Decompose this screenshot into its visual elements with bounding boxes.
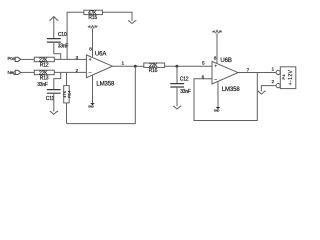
ground arrow near connector [258, 91, 266, 94]
power V+ symbol above U6B pin8 [212, 30, 222, 33]
connector pad Pos [8, 56, 21, 62]
resistor R14 vertical [63, 86, 71, 103]
resistor R16 22K [144, 63, 165, 74]
svg-text:33nF: 33nF [37, 82, 48, 88]
svg-text:1: 1 [272, 67, 275, 72]
junction dot C12 [175, 65, 178, 68]
svg-text:U6B: U6B [220, 58, 231, 64]
feedback wire A down and left [67, 66, 136, 123]
wire connector pin2 to ground [261, 86, 276, 92]
power V+ arrow above C10 [49, 17, 58, 21]
svg-text:R13: R13 [40, 75, 49, 81]
resistor R15 47K [84, 10, 103, 21]
svg-text:C12: C12 [180, 77, 189, 83]
wire V+ to C10 [53, 18, 55, 39]
wire U6A output [112, 65, 143, 67]
ground arrow under C11 [50, 112, 58, 115]
power V+ symbol above U6A pin8 [88, 26, 98, 29]
svg-text:+: + [214, 63, 217, 68]
svg-text:R16: R16 [149, 68, 158, 74]
svg-text:P4: P4 [281, 74, 286, 80]
svg-text:2: 2 [272, 79, 275, 84]
svg-text:+: + [89, 57, 92, 62]
svg-text:9V: 9V [219, 30, 222, 33]
wire C12 bottom to ground [176, 87, 178, 106]
svg-text:33nF: 33nF [180, 89, 191, 95]
wire R12 to U6A pin3 [54, 58, 86, 60]
ground arrow top right of R15 [128, 21, 136, 24]
op-amp U6A LM358 [86, 51, 115, 87]
capacitor C10 33nF [47, 32, 69, 50]
wire U6B pin6 feedback route [194, 73, 257, 121]
svg-text:R14: R14 [67, 91, 71, 98]
wire R13 to U6A pin2 [54, 71, 86, 73]
wire R14 bottom [66, 103, 68, 124]
svg-text:R15: R15 [88, 15, 97, 21]
svg-text:–: – [214, 76, 217, 81]
wire V+ to U6B pin8 [216, 33, 218, 64]
svg-text:7: 7 [247, 68, 250, 73]
svg-text:C11: C11 [46, 96, 55, 102]
svg-text:9V: 9V [95, 26, 98, 29]
svg-text:–: – [89, 69, 92, 74]
wire C10 bottom jog to pin3 net [54, 42, 61, 59]
junction dot feedback A [134, 65, 137, 68]
wire pin3 net up to R15 [67, 12, 84, 59]
wire R15 to ground [103, 12, 133, 20]
wire V+ to U6A pin 8 [92, 29, 94, 57]
wire Pos to R12 [21, 58, 35, 60]
wire R16 to U6B pin5 [165, 65, 212, 67]
svg-text:LM358: LM358 [96, 81, 115, 87]
resistor R12 22K [34, 57, 54, 68]
capacitor C12 33nF [170, 77, 191, 95]
wire C12 top [176, 66, 178, 83]
GND power symbol under U6A [88, 103, 94, 108]
svg-text:GND: GND [88, 106, 94, 109]
svg-text:GND: GND [214, 109, 220, 112]
svg-text:8: 8 [214, 56, 217, 61]
ground arrow under C12 [173, 106, 181, 109]
wire R14 top [66, 72, 68, 85]
op-amp U6B LM358 [212, 58, 240, 93]
svg-text:8: 8 [89, 46, 92, 51]
svg-text:1: 1 [122, 60, 125, 65]
svg-text:R12: R12 [40, 62, 49, 68]
connector pin 1 circle [276, 70, 280, 74]
resistor R13 22K [34, 70, 54, 81]
wire Neg to R13 [21, 71, 35, 73]
svg-text:Pos: Pos [8, 56, 16, 61]
svg-text:LM358: LM358 [222, 87, 241, 93]
svg-text:5: 5 [202, 61, 205, 66]
wire C11 bottom to ground [53, 93, 55, 111]
capacitor C11 33nF [37, 82, 60, 102]
svg-text:+-12V: +-12V [288, 69, 294, 85]
svg-text:C10: C10 [58, 32, 67, 38]
connector pad Neg [8, 70, 21, 75]
wire U6B output to connector pin1 [238, 72, 276, 74]
connector X1 body [280, 67, 296, 89]
U6A pin4 stem to GND [92, 75, 94, 103]
GND power symbol under U6B [214, 107, 220, 112]
wire C11 jog from pin2 net [54, 72, 61, 89]
U6B pin4 stem to GND [217, 82, 219, 107]
svg-text:U6A: U6A [95, 51, 106, 57]
connector pin 2 circle [276, 84, 280, 88]
